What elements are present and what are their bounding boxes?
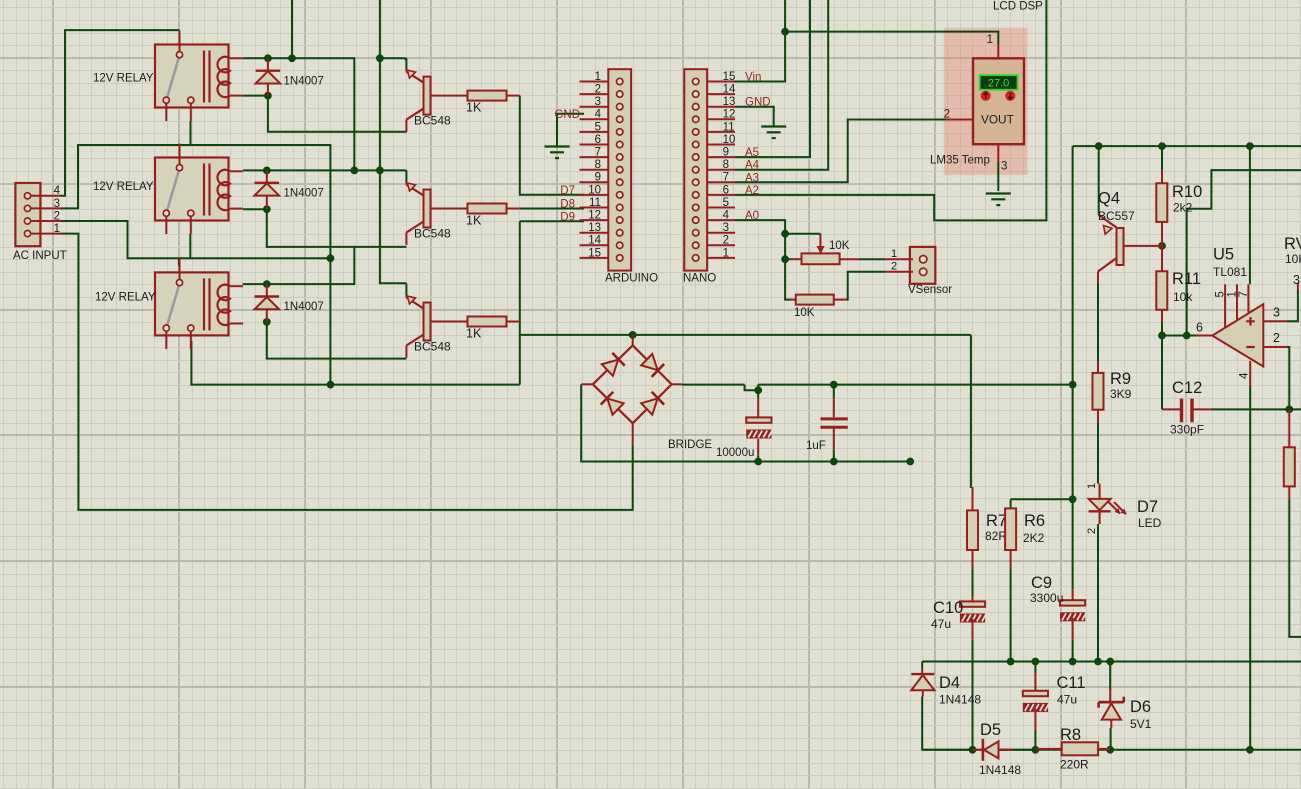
- svg-text:1N4007: 1N4007: [284, 301, 324, 313]
- svg-text:10K: 10K: [794, 307, 815, 319]
- svg-text:4: 4: [54, 185, 61, 197]
- svg-text:ARDUINO: ARDUINO: [605, 273, 658, 285]
- svg-text:6: 6: [723, 184, 729, 196]
- svg-text:BC548: BC548: [414, 340, 451, 354]
- svg-text:2: 2: [944, 109, 950, 121]
- svg-text:3300u: 3300u: [1030, 591, 1063, 605]
- svg-text:6: 6: [595, 134, 601, 146]
- svg-text:1: 1: [723, 247, 729, 259]
- svg-text:12V RELAY: 12V RELAY: [93, 73, 154, 85]
- svg-text:13: 13: [588, 222, 601, 234]
- svg-text:A5: A5: [745, 147, 759, 159]
- svg-text:D6: D6: [1130, 698, 1151, 716]
- svg-text:15: 15: [723, 71, 736, 83]
- svg-text:1: 1: [1227, 291, 1239, 297]
- svg-text:1: 1: [1086, 483, 1098, 489]
- svg-text:LCD DSP: LCD DSP: [993, 1, 1043, 13]
- svg-text:2: 2: [54, 210, 60, 222]
- svg-text:1K: 1K: [466, 327, 482, 341]
- svg-text:C11: C11: [1057, 674, 1086, 692]
- svg-text:C9: C9: [1031, 574, 1052, 592]
- svg-text:10: 10: [588, 184, 601, 196]
- svg-text:8: 8: [723, 159, 729, 171]
- svg-text:1N4007: 1N4007: [284, 187, 324, 199]
- svg-text:R11: R11: [1172, 270, 1201, 288]
- svg-text:BC557: BC557: [1098, 209, 1135, 223]
- svg-text:R10: R10: [1172, 183, 1202, 201]
- svg-text:A0: A0: [745, 210, 759, 222]
- svg-text:10: 10: [723, 134, 736, 146]
- svg-text:D9: D9: [560, 211, 575, 223]
- svg-text:Vin: Vin: [745, 72, 761, 84]
- svg-text:5: 5: [1215, 291, 1227, 297]
- svg-text:14: 14: [723, 84, 736, 96]
- svg-text:14: 14: [588, 235, 601, 247]
- svg-text:330pF: 330pF: [1170, 423, 1204, 437]
- svg-text:VSensor: VSensor: [908, 284, 952, 296]
- svg-text:TL081: TL081: [1213, 265, 1247, 279]
- svg-text:3K9: 3K9: [1110, 387, 1132, 401]
- svg-text:10K: 10K: [829, 240, 850, 252]
- svg-text:D8: D8: [560, 199, 575, 211]
- svg-text:1: 1: [891, 248, 897, 260]
- svg-text:R7: R7: [986, 512, 1007, 530]
- svg-text:BC548: BC548: [414, 227, 451, 241]
- svg-text:47u: 47u: [1057, 692, 1077, 706]
- svg-text:NANO: NANO: [683, 273, 716, 285]
- svg-text:220R: 220R: [1060, 757, 1089, 771]
- svg-text:LM35 Temp: LM35 Temp: [930, 155, 990, 167]
- svg-text:8: 8: [595, 159, 601, 171]
- svg-text:1K: 1K: [466, 101, 482, 115]
- svg-text:2K2: 2K2: [1023, 531, 1045, 545]
- svg-text:11: 11: [723, 121, 735, 133]
- svg-text:10000u: 10000u: [716, 447, 754, 459]
- svg-text:BRIDGE: BRIDGE: [668, 439, 712, 451]
- svg-text:5V1: 5V1: [1130, 717, 1152, 731]
- svg-text:5: 5: [595, 121, 601, 133]
- svg-text:A3: A3: [745, 172, 759, 184]
- svg-text:C10: C10: [933, 599, 963, 617]
- svg-text:1: 1: [595, 71, 601, 83]
- svg-text:10k: 10k: [1173, 290, 1193, 304]
- svg-text:3: 3: [1273, 306, 1280, 320]
- svg-text:1N4007: 1N4007: [284, 75, 324, 87]
- svg-text:9: 9: [723, 147, 729, 159]
- svg-text:3: 3: [723, 222, 729, 234]
- svg-text:LED: LED: [1138, 516, 1162, 530]
- svg-text:Q4: Q4: [1098, 190, 1120, 208]
- svg-text:R8: R8: [1060, 726, 1081, 744]
- svg-text:D4: D4: [939, 674, 960, 692]
- svg-text:47u: 47u: [931, 617, 951, 631]
- svg-text:10K: 10K: [1285, 252, 1301, 266]
- svg-text:12V RELAY: 12V RELAY: [93, 181, 154, 193]
- svg-text:1: 1: [54, 223, 60, 235]
- svg-text:15: 15: [588, 247, 601, 259]
- svg-text:6: 6: [1196, 321, 1203, 335]
- svg-text:2: 2: [891, 261, 897, 273]
- svg-text:2: 2: [1086, 528, 1098, 534]
- svg-text:4: 4: [595, 109, 602, 121]
- svg-text:D5: D5: [980, 721, 1001, 739]
- svg-text:7: 7: [723, 172, 729, 184]
- svg-text:A2: A2: [745, 185, 759, 197]
- svg-text:82R: 82R: [985, 529, 1007, 543]
- svg-text:1: 1: [987, 34, 993, 46]
- svg-text:BC548: BC548: [414, 114, 451, 128]
- svg-text:13: 13: [723, 96, 736, 108]
- svg-text:12: 12: [588, 210, 601, 222]
- svg-text:7: 7: [1238, 291, 1250, 297]
- svg-text:3: 3: [595, 96, 601, 108]
- svg-text:RV: RV: [1284, 235, 1301, 253]
- svg-text:1N4148: 1N4148: [979, 763, 1021, 777]
- svg-text:1uF: 1uF: [806, 440, 826, 452]
- svg-text:1K: 1K: [466, 214, 482, 228]
- svg-text:7: 7: [595, 147, 601, 159]
- svg-text:4: 4: [1238, 372, 1250, 379]
- svg-text:D7: D7: [1137, 498, 1158, 516]
- svg-text:GND: GND: [554, 109, 580, 121]
- svg-text:12: 12: [723, 109, 736, 121]
- svg-text:A4: A4: [745, 160, 760, 172]
- svg-text:27.0: 27.0: [988, 78, 1009, 90]
- svg-text:3: 3: [1293, 273, 1300, 287]
- svg-text:9: 9: [595, 172, 601, 184]
- svg-text:GND: GND: [745, 97, 771, 109]
- svg-text:U5: U5: [1213, 246, 1234, 264]
- svg-text:VOUT: VOUT: [981, 112, 1014, 126]
- svg-text:3: 3: [54, 198, 60, 210]
- svg-text:1N4148: 1N4148: [939, 693, 981, 707]
- svg-text:AC INPUT: AC INPUT: [13, 250, 67, 262]
- svg-text:11: 11: [589, 197, 601, 209]
- svg-text:2: 2: [595, 84, 601, 96]
- svg-text:3: 3: [1001, 161, 1007, 173]
- svg-text:2k2: 2k2: [1173, 201, 1193, 215]
- svg-text:2: 2: [1273, 331, 1280, 345]
- svg-text:2: 2: [723, 235, 729, 247]
- svg-text:12V RELAY: 12V RELAY: [95, 292, 156, 304]
- svg-text:R9: R9: [1110, 370, 1131, 388]
- svg-text:D7: D7: [560, 185, 575, 197]
- svg-text:4: 4: [723, 210, 730, 222]
- svg-text:C12: C12: [1172, 379, 1202, 397]
- svg-text:R6: R6: [1024, 512, 1045, 530]
- svg-text:5: 5: [723, 197, 729, 209]
